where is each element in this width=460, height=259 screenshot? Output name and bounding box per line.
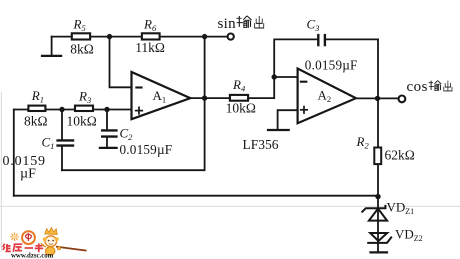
wire C2 stem bbox=[106, 110, 108, 148]
label 10k value R3 bbox=[67, 114, 97, 129]
label C3 bbox=[307, 16, 320, 33]
wire A2 output to cos terminal bbox=[356, 97, 399, 99]
ground bbox=[100, 147, 117, 149]
node A2 inverting junction bbox=[272, 74, 277, 79]
label sin output bbox=[218, 16, 264, 32]
svg-text:8kΩ: 8kΩ bbox=[70, 42, 94, 57]
ground bbox=[42, 55, 61, 57]
terminal cos output bbox=[399, 96, 406, 103]
op-amp A2 bbox=[298, 69, 356, 124]
svg-text:www.dzsc.com: www.dzsc.com bbox=[11, 253, 54, 259]
svg-text:cos: cos bbox=[407, 79, 429, 95]
label 8k value R5 bbox=[70, 42, 94, 57]
label R2 bbox=[356, 134, 370, 151]
resistor R4 bbox=[230, 95, 248, 101]
label R4 bbox=[232, 77, 246, 94]
zener diode VDZ2 bbox=[367, 233, 392, 243]
label cos output bbox=[407, 79, 453, 95]
wire top rail sin node bbox=[52, 36, 228, 38]
capacitor C3 bbox=[318, 34, 325, 46]
wire sin node down to A1 output and C1 feedback bbox=[204, 37, 206, 170]
node zener R2 junction bbox=[375, 194, 380, 199]
label 10k value R4 bbox=[226, 101, 256, 116]
capacitor C1 bbox=[56, 140, 74, 145]
zener diode VDZ1 bbox=[362, 205, 388, 221]
wire bottom rail bbox=[14, 195, 378, 197]
node R5-R6 junction bbox=[107, 34, 112, 39]
label R6 bbox=[143, 16, 157, 33]
label C1 value bbox=[3, 154, 46, 182]
svg-text:10kΩ: 10kΩ bbox=[67, 114, 97, 129]
watermark logo bbox=[10, 227, 86, 255]
wire input chain R1 R3 to A1 plus bbox=[14, 109, 132, 111]
resistor R1 bbox=[28, 106, 45, 111]
label C1 bbox=[42, 135, 55, 152]
label C2 value bbox=[120, 142, 173, 157]
label C3 value bbox=[305, 58, 358, 73]
label R3 bbox=[78, 89, 91, 106]
label R1 bbox=[31, 88, 44, 105]
label 62k value R2 bbox=[385, 148, 415, 163]
svg-text:11kΩ: 11kΩ bbox=[135, 40, 165, 55]
label 8k value R1 bbox=[24, 114, 48, 129]
wire C3 feedback loop bbox=[274, 39, 378, 77]
node cos output junction bbox=[375, 96, 380, 101]
capacitor C2 bbox=[101, 130, 118, 136]
resistor R5 bbox=[72, 33, 90, 39]
op-amp A1 bbox=[132, 72, 191, 119]
wire ground stub left bbox=[51, 37, 53, 56]
label R5 bbox=[73, 17, 86, 33]
node A1 output junction bbox=[202, 95, 207, 100]
node R1-R3 junction bbox=[59, 107, 64, 112]
ground bbox=[369, 251, 388, 253]
svg-text:µF: µF bbox=[20, 167, 36, 182]
node R3-A1 junction bbox=[104, 107, 109, 112]
wire A2 inverting input bbox=[274, 76, 297, 78]
label VDZ2 bbox=[395, 227, 423, 244]
label VDZ1 bbox=[387, 199, 415, 216]
wire left feedback column bbox=[13, 110, 15, 196]
svg-text:0.0159µF: 0.0159µF bbox=[305, 58, 358, 73]
label 11k value R6 bbox=[135, 40, 165, 55]
svg-text:8kΩ: 8kΩ bbox=[24, 114, 48, 129]
terminal sin output bbox=[228, 34, 234, 40]
svg-text:62kΩ: 62kΩ bbox=[385, 148, 415, 163]
resistor R6 bbox=[142, 33, 160, 39]
wire C1 bottom feedback bbox=[62, 169, 205, 171]
svg-text:sin: sin bbox=[218, 16, 237, 32]
label LF356 bbox=[243, 137, 279, 152]
resistor R2 bbox=[374, 148, 381, 165]
ground bbox=[268, 129, 289, 131]
wire A1 output to R4 to A2 inverting bbox=[190, 77, 274, 98]
wire C1 stem bbox=[61, 110, 63, 171]
label C2 bbox=[120, 126, 134, 143]
wire R5R6 junction to A1 inverting input bbox=[110, 37, 132, 88]
svg-text:0.0159µF: 0.0159µF bbox=[120, 142, 173, 157]
wire right column C3 to R2 to zeners bbox=[377, 39, 379, 252]
wire A2 plus input bbox=[278, 110, 298, 130]
svg-text:10kΩ: 10kΩ bbox=[226, 101, 256, 116]
resistor R3 bbox=[75, 106, 93, 111]
node sin output junction bbox=[202, 34, 207, 39]
svg-text:LF356: LF356 bbox=[243, 137, 279, 152]
watermark text bbox=[3, 243, 43, 252]
